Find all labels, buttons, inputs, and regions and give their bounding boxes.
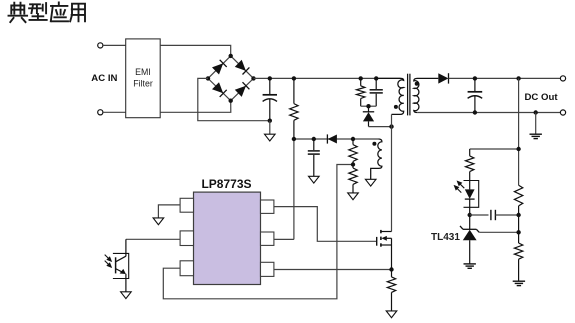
pin 2 box (left middle) bbox=[180, 231, 193, 246]
op-amp U1 LP8773S body bbox=[194, 192, 261, 284]
svg-text:AC IN: AC IN bbox=[91, 73, 117, 84]
svg-text:DC Out: DC Out bbox=[525, 92, 559, 103]
ground aux divider bbox=[348, 193, 359, 200]
diode D7 aux rectifier bbox=[327, 134, 337, 143]
node aux divider top bbox=[351, 137, 355, 141]
node feedback tee bbox=[516, 147, 520, 151]
wire pin5 VCC bbox=[274, 139, 294, 239]
wire feedback branch vertical bbox=[518, 78, 520, 185]
node VCC rail left bbox=[292, 137, 296, 141]
resistor R6 aux divider lower bbox=[349, 165, 357, 193]
node bridge right vertex bbox=[251, 76, 255, 80]
transformer T1 auxiliary winding bbox=[371, 139, 382, 179]
node aux winding phase dot bbox=[372, 142, 376, 146]
resistor R2 snubber bbox=[357, 78, 365, 106]
diode D5 clamp bbox=[363, 106, 374, 126]
ground pin1 bbox=[153, 218, 164, 225]
capacitor C5 output electrolytic bbox=[468, 78, 483, 112]
shunt regulator U2 TL431 bbox=[460, 215, 479, 264]
ground sense resistor bbox=[386, 311, 397, 318]
pin 1 box (left top) bbox=[180, 198, 193, 212]
wire output ground stub bbox=[535, 113, 537, 135]
node DC- rail / C1 bottom bbox=[268, 119, 272, 123]
bridge diamond wires bbox=[208, 56, 254, 101]
optocoupler phototransistor package bracket bbox=[113, 253, 129, 278]
ground aux winding bbox=[365, 179, 376, 186]
node output cap bottom bbox=[473, 110, 477, 114]
AC input terminal bottom bbox=[98, 110, 103, 115]
resistor R1 startup (bus to VCC) bbox=[290, 78, 298, 139]
ground opto emitter bbox=[121, 292, 132, 299]
node bridge left vertex bbox=[206, 76, 210, 80]
title 典型应用 (Typical Application) bbox=[9, 3, 86, 23]
node primary phase dot bbox=[394, 105, 398, 109]
svg-text:TL431: TL431 bbox=[431, 232, 460, 243]
resistor R10 divider lower bbox=[514, 243, 522, 281]
optocoupler LED bbox=[465, 181, 475, 216]
svg-text:Filter: Filter bbox=[133, 79, 153, 89]
label AC IN bbox=[91, 73, 117, 84]
pin 6 box (right top) bbox=[261, 200, 274, 213]
node startup resistor top bbox=[292, 76, 296, 80]
node output ground bbox=[534, 110, 538, 114]
node aux cap top bbox=[312, 137, 316, 141]
node aux divider mid bbox=[351, 162, 355, 166]
pin 5 box (right middle) bbox=[261, 232, 274, 245]
capacitor C1 bulk electrolytic bbox=[263, 78, 277, 120]
node snubber C top bbox=[374, 76, 378, 80]
label DC Out bbox=[525, 92, 559, 103]
transistor Q2 opto phototransistor bbox=[116, 239, 126, 291]
bridge diode D1 (left-top arm) bbox=[212, 60, 227, 75]
terminal DC Out - bbox=[560, 110, 565, 115]
pin 4 box (right bottom) bbox=[261, 262, 274, 276]
bridge diode D4 (bottom-right arm) bbox=[235, 82, 250, 97]
wire AC bottom terminal to EMI filter bbox=[103, 111, 126, 113]
pin 3 box (left bottom) bbox=[180, 261, 193, 276]
label LP8773S bbox=[201, 177, 251, 191]
node drain / clamp junction bbox=[389, 124, 393, 128]
label TL431 bbox=[431, 232, 460, 243]
wire snubber bottom bar bbox=[361, 105, 377, 107]
transformer core bbox=[408, 74, 410, 116]
capacitor C3 VCC bbox=[308, 139, 320, 176]
resistor R5 aux divider upper bbox=[349, 139, 357, 165]
node feedback branch top bbox=[516, 76, 520, 80]
node bulk cap top bbox=[268, 76, 272, 80]
svg-text:LP8773S: LP8773S bbox=[201, 177, 251, 191]
node secondary phase dot bbox=[415, 82, 419, 86]
ground secondary (output) bbox=[530, 134, 542, 138]
ground divider bbox=[513, 281, 525, 285]
node divider / ref bbox=[516, 230, 520, 234]
ground TL431 anode bbox=[464, 264, 476, 268]
wire clamp diode to drain node bbox=[369, 126, 392, 128]
node snubber R top bbox=[359, 76, 363, 80]
bridge diode D2 (top-right arm) bbox=[235, 60, 250, 75]
wire pin6 gate drive bbox=[274, 207, 377, 242]
capacitor C2 snubber bbox=[370, 78, 383, 106]
ground primary (bulk cap) bbox=[265, 134, 276, 141]
bridge diode D3 (left-bottom arm) bbox=[212, 82, 227, 97]
wire C1 to primary ground bbox=[269, 121, 271, 135]
transistor Q1 MOSFET bbox=[377, 230, 392, 270]
AC input terminal top bbox=[98, 43, 103, 48]
optocoupler LED light arrows bbox=[455, 181, 465, 192]
node output cap top bbox=[473, 76, 477, 80]
wire VCC aux rail bbox=[294, 138, 379, 140]
wire pin2 to optocoupler collector bbox=[126, 238, 180, 240]
wire TL431 ref to divider bbox=[479, 231, 518, 233]
wire DC- output rail bbox=[417, 112, 560, 114]
resistor R9 divider upper bbox=[514, 185, 522, 243]
diode D6 output rectifier bbox=[438, 73, 448, 83]
transformer T1 secondary winding bbox=[414, 78, 439, 112]
EMI filter block bbox=[126, 39, 161, 118]
node MOSFET source / CS bbox=[389, 267, 393, 271]
wire pin3 feedback sense route bbox=[163, 165, 353, 299]
optocoupler LED package bracket bbox=[464, 181, 479, 208]
ground VCC cap bbox=[309, 176, 320, 183]
resistor R7 current sense bbox=[387, 270, 395, 311]
wire pin4 current sense bbox=[274, 269, 392, 271]
resistor R8 opto bias bbox=[466, 149, 474, 180]
node LED cathode / comp cap bbox=[468, 213, 472, 217]
wire DC+ rail bbox=[449, 77, 561, 79]
terminal DC Out + bbox=[560, 76, 565, 81]
wire feedback tee to opto branch bbox=[470, 148, 519, 150]
wire EMI bottom output to bridge bottom bbox=[160, 101, 231, 113]
wire pin1 to ground bbox=[158, 205, 180, 218]
wire HV DC bus bbox=[254, 77, 401, 79]
node snubber bottom bbox=[366, 104, 370, 108]
svg-text:EMI: EMI bbox=[135, 67, 151, 77]
node bridge top vertex bbox=[229, 54, 233, 58]
wire drain vertical bbox=[391, 114, 393, 231]
node divider / comp cap bbox=[516, 213, 520, 217]
transformer T1 primary winding bbox=[376, 78, 404, 114]
capacitor C6 compensation bbox=[470, 210, 519, 220]
optocoupler receive light arrows bbox=[105, 255, 112, 268]
node bridge bottom vertex bbox=[229, 99, 233, 103]
wire bridge negative to DC- rail bbox=[198, 78, 270, 120]
wire AC top terminal to EMI filter bbox=[103, 44, 126, 46]
wire EMI top output to bridge top bbox=[160, 45, 231, 56]
